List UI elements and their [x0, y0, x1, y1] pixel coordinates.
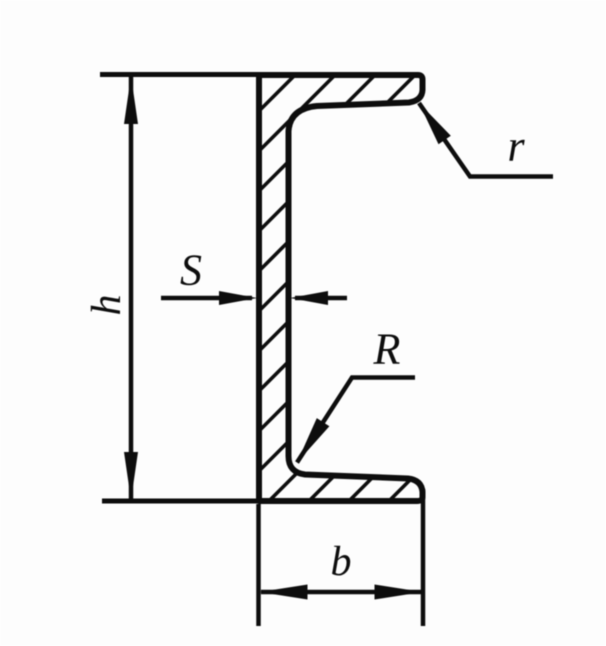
channel profile outline: [259, 75, 423, 501]
dimension line b: [261, 590, 421, 595]
arrowhead b right: [375, 585, 423, 600]
extension line b right: [421, 489, 426, 626]
extension line top (h): [100, 72, 262, 77]
dimension S right arrow: [295, 296, 347, 301]
svg-text:R: R: [373, 325, 401, 374]
leader R: [297, 378, 415, 463]
dimension line h: [129, 77, 134, 499]
svg-text:b: b: [331, 539, 352, 585]
leader r: [419, 103, 553, 177]
svg-text:S: S: [180, 246, 202, 295]
extension line bottom (h): [102, 499, 262, 504]
arrowhead R: [297, 418, 329, 462]
arrowhead h bottom: [124, 452, 138, 500]
arrowhead h top: [124, 76, 138, 124]
arrowhead b left: [260, 585, 308, 600]
svg-text:h: h: [84, 295, 130, 316]
svg-text:r: r: [507, 122, 525, 171]
extension line b left: [256, 504, 261, 626]
dimension S left arrow: [161, 296, 252, 301]
arrowhead r: [419, 103, 451, 144]
